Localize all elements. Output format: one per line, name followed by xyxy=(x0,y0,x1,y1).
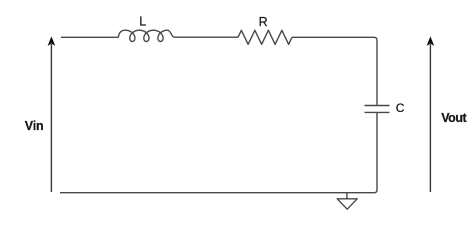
svg-text:L: L xyxy=(139,15,146,29)
wire inductor-to-resistor xyxy=(174,36,238,38)
svg-text:C: C xyxy=(396,101,405,115)
wire top-left segment xyxy=(61,36,119,38)
Vin arrow line xyxy=(50,44,52,192)
svg-text:Vout: Vout xyxy=(441,111,467,125)
Vout arrowhead xyxy=(427,36,435,46)
wire resistor-to-corner, right wire down to capacitor xyxy=(292,37,377,105)
ground triangle xyxy=(337,199,357,209)
svg-text:R: R xyxy=(259,15,268,29)
svg-text:Vin: Vin xyxy=(25,119,44,133)
Vin arrowhead xyxy=(48,36,56,46)
wire bottom xyxy=(60,192,374,194)
capacitor C top plate xyxy=(365,105,390,107)
Vout arrow line xyxy=(429,44,431,192)
capacitor C bottom plate xyxy=(365,111,390,113)
wire capacitor-to-bottom corner xyxy=(374,113,377,193)
inductor L xyxy=(118,30,174,41)
resistor R xyxy=(238,30,292,44)
ground stub xyxy=(346,193,348,199)
